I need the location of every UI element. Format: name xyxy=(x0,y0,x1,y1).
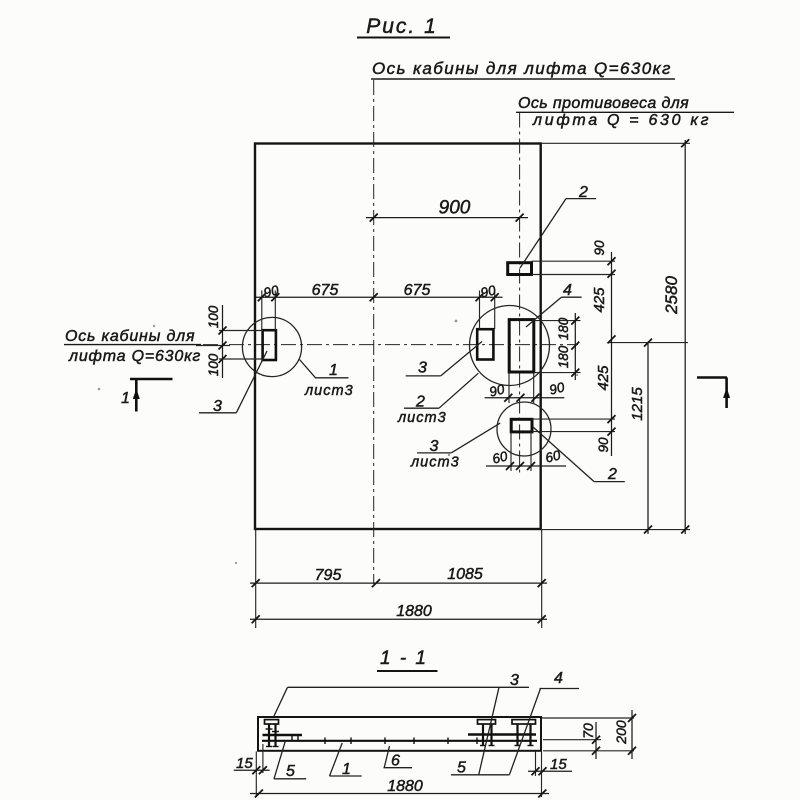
svg-text:лист3: лист3 xyxy=(397,410,447,426)
svg-text:3: 3 xyxy=(213,398,222,415)
svg-text:70: 70 xyxy=(580,723,596,739)
svg-text:15: 15 xyxy=(550,756,567,773)
svg-text:180: 180 xyxy=(556,317,571,340)
svg-text:5: 5 xyxy=(457,760,466,777)
svg-text:90: 90 xyxy=(592,240,607,256)
svg-text:1: 1 xyxy=(329,362,338,379)
svg-text:2: 2 xyxy=(607,466,617,483)
svg-text:3: 3 xyxy=(510,672,519,689)
svg-text:795: 795 xyxy=(315,567,342,584)
svg-text:425: 425 xyxy=(595,365,612,391)
svg-text:Ось противовеса для: Ось противовеса для xyxy=(518,95,689,112)
svg-text:4: 4 xyxy=(563,282,572,299)
svg-text:Ось кабины для лифта Q=630кг: Ось кабины для лифта Q=630кг xyxy=(372,59,672,78)
svg-text:1880: 1880 xyxy=(387,778,423,795)
svg-text:1085: 1085 xyxy=(447,566,483,583)
svg-text:лифта Q=630кг: лифта Q=630кг xyxy=(68,348,201,365)
svg-text:Ось кабины для: Ось кабины для xyxy=(65,328,195,345)
svg-text:Рис. 1: Рис. 1 xyxy=(366,15,438,38)
svg-text:100: 100 xyxy=(206,353,221,376)
svg-text:675: 675 xyxy=(312,282,339,299)
svg-text:100: 100 xyxy=(206,305,221,328)
svg-text:675: 675 xyxy=(404,282,431,299)
svg-text:1880: 1880 xyxy=(396,603,432,620)
svg-text:200: 200 xyxy=(613,720,629,745)
svg-text:лифта Q = 630 кг: лифта Q = 630 кг xyxy=(532,112,711,129)
svg-text:4: 4 xyxy=(554,670,563,687)
svg-text:лист3: лист3 xyxy=(304,383,354,399)
svg-text:15: 15 xyxy=(236,755,253,772)
svg-text:425: 425 xyxy=(591,287,608,313)
svg-text:180: 180 xyxy=(556,345,571,368)
svg-text:900: 900 xyxy=(439,198,471,219)
svg-text:2580: 2580 xyxy=(662,276,681,315)
svg-text:2: 2 xyxy=(578,184,588,201)
svg-text:1: 1 xyxy=(121,390,130,407)
svg-text:90: 90 xyxy=(596,437,611,453)
svg-text:3: 3 xyxy=(418,360,427,377)
svg-text:5: 5 xyxy=(286,763,295,780)
svg-text:1: 1 xyxy=(342,761,351,778)
svg-text:лист3: лист3 xyxy=(410,455,460,471)
svg-text:2: 2 xyxy=(415,394,425,411)
svg-text:1 - 1: 1 - 1 xyxy=(380,648,428,669)
svg-text:3: 3 xyxy=(430,438,439,455)
svg-text:1215: 1215 xyxy=(629,387,646,421)
svg-text:6: 6 xyxy=(391,753,400,770)
